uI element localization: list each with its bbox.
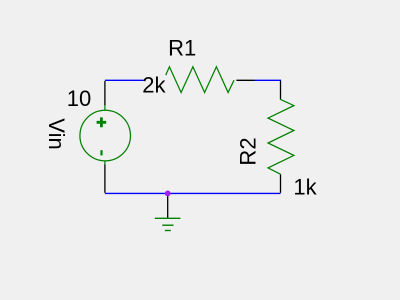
label 10 value of Vin bbox=[66, 86, 92, 111]
resistor R2 lead top (black) bbox=[280, 81, 282, 99]
wire top-left horizontal (node top to R1) bbox=[105, 79, 150, 81]
voltage source plus sign bbox=[97, 117, 107, 127]
label Vin (rotated) bbox=[44, 118, 69, 151]
svg-text:R2: R2 bbox=[236, 137, 261, 165]
voltage source Vin lead top (black) bbox=[104, 81, 106, 105]
svg-text:10: 10 bbox=[67, 86, 91, 111]
resistor R1 lead left (black) bbox=[146, 79, 164, 81]
node junction dot bbox=[165, 191, 171, 197]
voltage source Vin circle bbox=[80, 110, 131, 161]
resistor R1 lead right (black) bbox=[236, 79, 254, 81]
resistor R1 zigzag bbox=[164, 67, 235, 93]
voltage source Vin lead bottom (black) bbox=[104, 164, 106, 193]
ground bbox=[155, 218, 181, 230]
voltage source minus sign bbox=[100, 150, 102, 155]
svg-text:R1: R1 bbox=[168, 35, 196, 60]
resistor R2 lead bottom (black) bbox=[280, 174, 282, 193]
svg-text:2k: 2k bbox=[142, 73, 166, 98]
label R2 (rotated) bbox=[236, 137, 261, 165]
wire top-right horizontal (R1 to top-right corner) bbox=[255, 79, 282, 81]
voltage source Vin stub top (green) bbox=[104, 105, 106, 110]
svg-text:1k: 1k bbox=[293, 175, 317, 200]
svg-text:Vin: Vin bbox=[44, 118, 69, 149]
label 1k value of R2 bbox=[291, 175, 319, 200]
wire ground stem (black) bbox=[167, 193, 169, 218]
label 2k value of R1 bbox=[142, 73, 166, 98]
resistor R2 zigzag bbox=[268, 99, 294, 174]
wire bottom horizontal (source bottom to R2 bottom) bbox=[105, 192, 281, 194]
voltage source Vin stub bottom (green) bbox=[104, 161, 106, 165]
label R1 bbox=[166, 35, 198, 60]
